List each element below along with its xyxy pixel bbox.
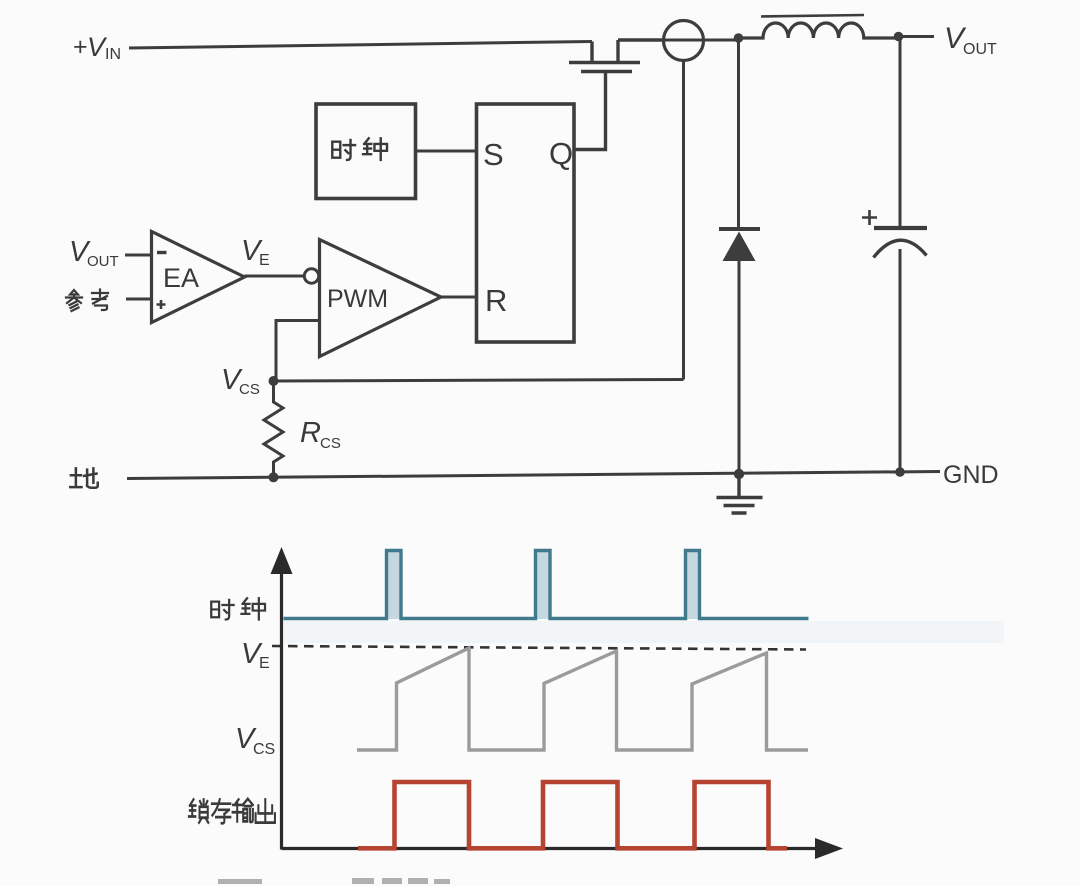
- dashed VE level line: [272, 646, 806, 650]
- svg-text:GND: GND: [943, 461, 999, 489]
- wire Q to gate: [574, 148, 606, 151]
- current sensor CS1: [664, 21, 740, 61]
- ground symbol: [717, 474, 763, 513]
- label VE: [241, 235, 270, 269]
- svg-text:CS: CS: [320, 435, 341, 452]
- svg-text:OUT: OUT: [87, 253, 119, 270]
- inductor core bar: [761, 15, 864, 17]
- label GND: [943, 461, 999, 489]
- EA minus sign: [157, 251, 167, 254]
- wire sensor down: [682, 61, 685, 380]
- pin Q: [549, 136, 573, 171]
- inductor L1: [739, 23, 899, 38]
- comparator PWM: [320, 240, 442, 357]
- label +VIN: [73, 32, 121, 63]
- pin R: [485, 283, 507, 318]
- caption fragment: [218, 878, 450, 884]
- wire VCS to sensor: [274, 380, 684, 382]
- label 参考 (reference): [66, 290, 108, 312]
- svg-text:OUT: OUT: [963, 41, 997, 58]
- svg-text:CS: CS: [253, 741, 275, 758]
- node VCS junction: [269, 376, 279, 386]
- axis vertical arrowhead: [271, 547, 293, 574]
- shading under clock baseline: [284, 621, 1004, 643]
- wire EA minus stub: [125, 254, 152, 257]
- svg-text:EA: EA: [163, 263, 199, 293]
- axis horizontal: [282, 847, 819, 850]
- svg-text:E: E: [259, 655, 270, 672]
- wire diode to ground rail: [738, 261, 741, 474]
- svg-text:CS: CS: [239, 381, 260, 398]
- wire to VOUT: [899, 35, 935, 38]
- diode D1: [719, 229, 760, 261]
- label RCS: [300, 417, 341, 452]
- svg-text:PWM: PWM: [327, 285, 388, 313]
- svg-text:Q: Q: [549, 136, 573, 171]
- node capacitor-ground junction: [895, 467, 905, 477]
- axis vertical: [280, 560, 283, 850]
- label VE (waveform): [241, 638, 270, 672]
- node resistor-ground junction: [269, 472, 279, 482]
- label 锁存输出 (latch output): [189, 799, 275, 824]
- label 时钟 (clock box): [332, 138, 387, 160]
- node A (switch node): [734, 33, 744, 43]
- label 时钟 (waveform): [211, 598, 265, 619]
- axis horizontal arrowhead: [815, 838, 843, 859]
- label VCS: [221, 364, 260, 398]
- node diode-ground junction: [734, 469, 744, 479]
- svg-text:IN: IN: [105, 46, 121, 63]
- wire capacitor to ground rail: [899, 249, 902, 472]
- wire node A down to diode: [737, 38, 740, 227]
- wire EA out to PWM bubble: [245, 275, 305, 278]
- transistor Q1 (PMOS switch): [569, 40, 664, 150]
- svg-text:R: R: [485, 283, 507, 318]
- svg-text:+: +: [73, 33, 88, 61]
- capacitor C1: [874, 228, 928, 258]
- label EA: [163, 263, 199, 293]
- resistor RCS: [264, 381, 283, 478]
- label PWM: [327, 285, 388, 313]
- wire node B down to capacitor: [899, 37, 902, 227]
- label VCS (waveform): [235, 723, 275, 758]
- label VOUT: [944, 22, 997, 58]
- wire VIN top rail: [129, 42, 592, 49]
- clock box 时钟: [316, 104, 416, 199]
- node B (Vout node): [894, 32, 904, 42]
- svg-text:S: S: [483, 137, 504, 172]
- wire clock to S: [416, 150, 477, 153]
- ramp waveform VCS: [357, 648, 808, 750]
- pin S: [483, 137, 504, 172]
- wire EA plus stub: [126, 298, 152, 301]
- clock waveform: [284, 551, 809, 619]
- ground rail wire: [127, 472, 940, 479]
- EA plus sign: [157, 300, 166, 309]
- latch output waveform: [358, 782, 787, 848]
- label VOUT (EA input): [69, 236, 119, 270]
- clock waveform fills: [388, 552, 699, 619]
- wire PWM out to R: [441, 296, 477, 299]
- latch U1 (SR box): [477, 104, 575, 342]
- op-amp EA: [152, 232, 245, 323]
- label 地 (ground): [70, 468, 98, 487]
- capacitor C1 polarity plus: [862, 210, 877, 225]
- svg-text:E: E: [259, 252, 270, 269]
- PWM inverting bubble: [304, 269, 318, 283]
- svg-text:R: R: [300, 417, 321, 449]
- wire PWM lower input: [276, 321, 320, 380]
